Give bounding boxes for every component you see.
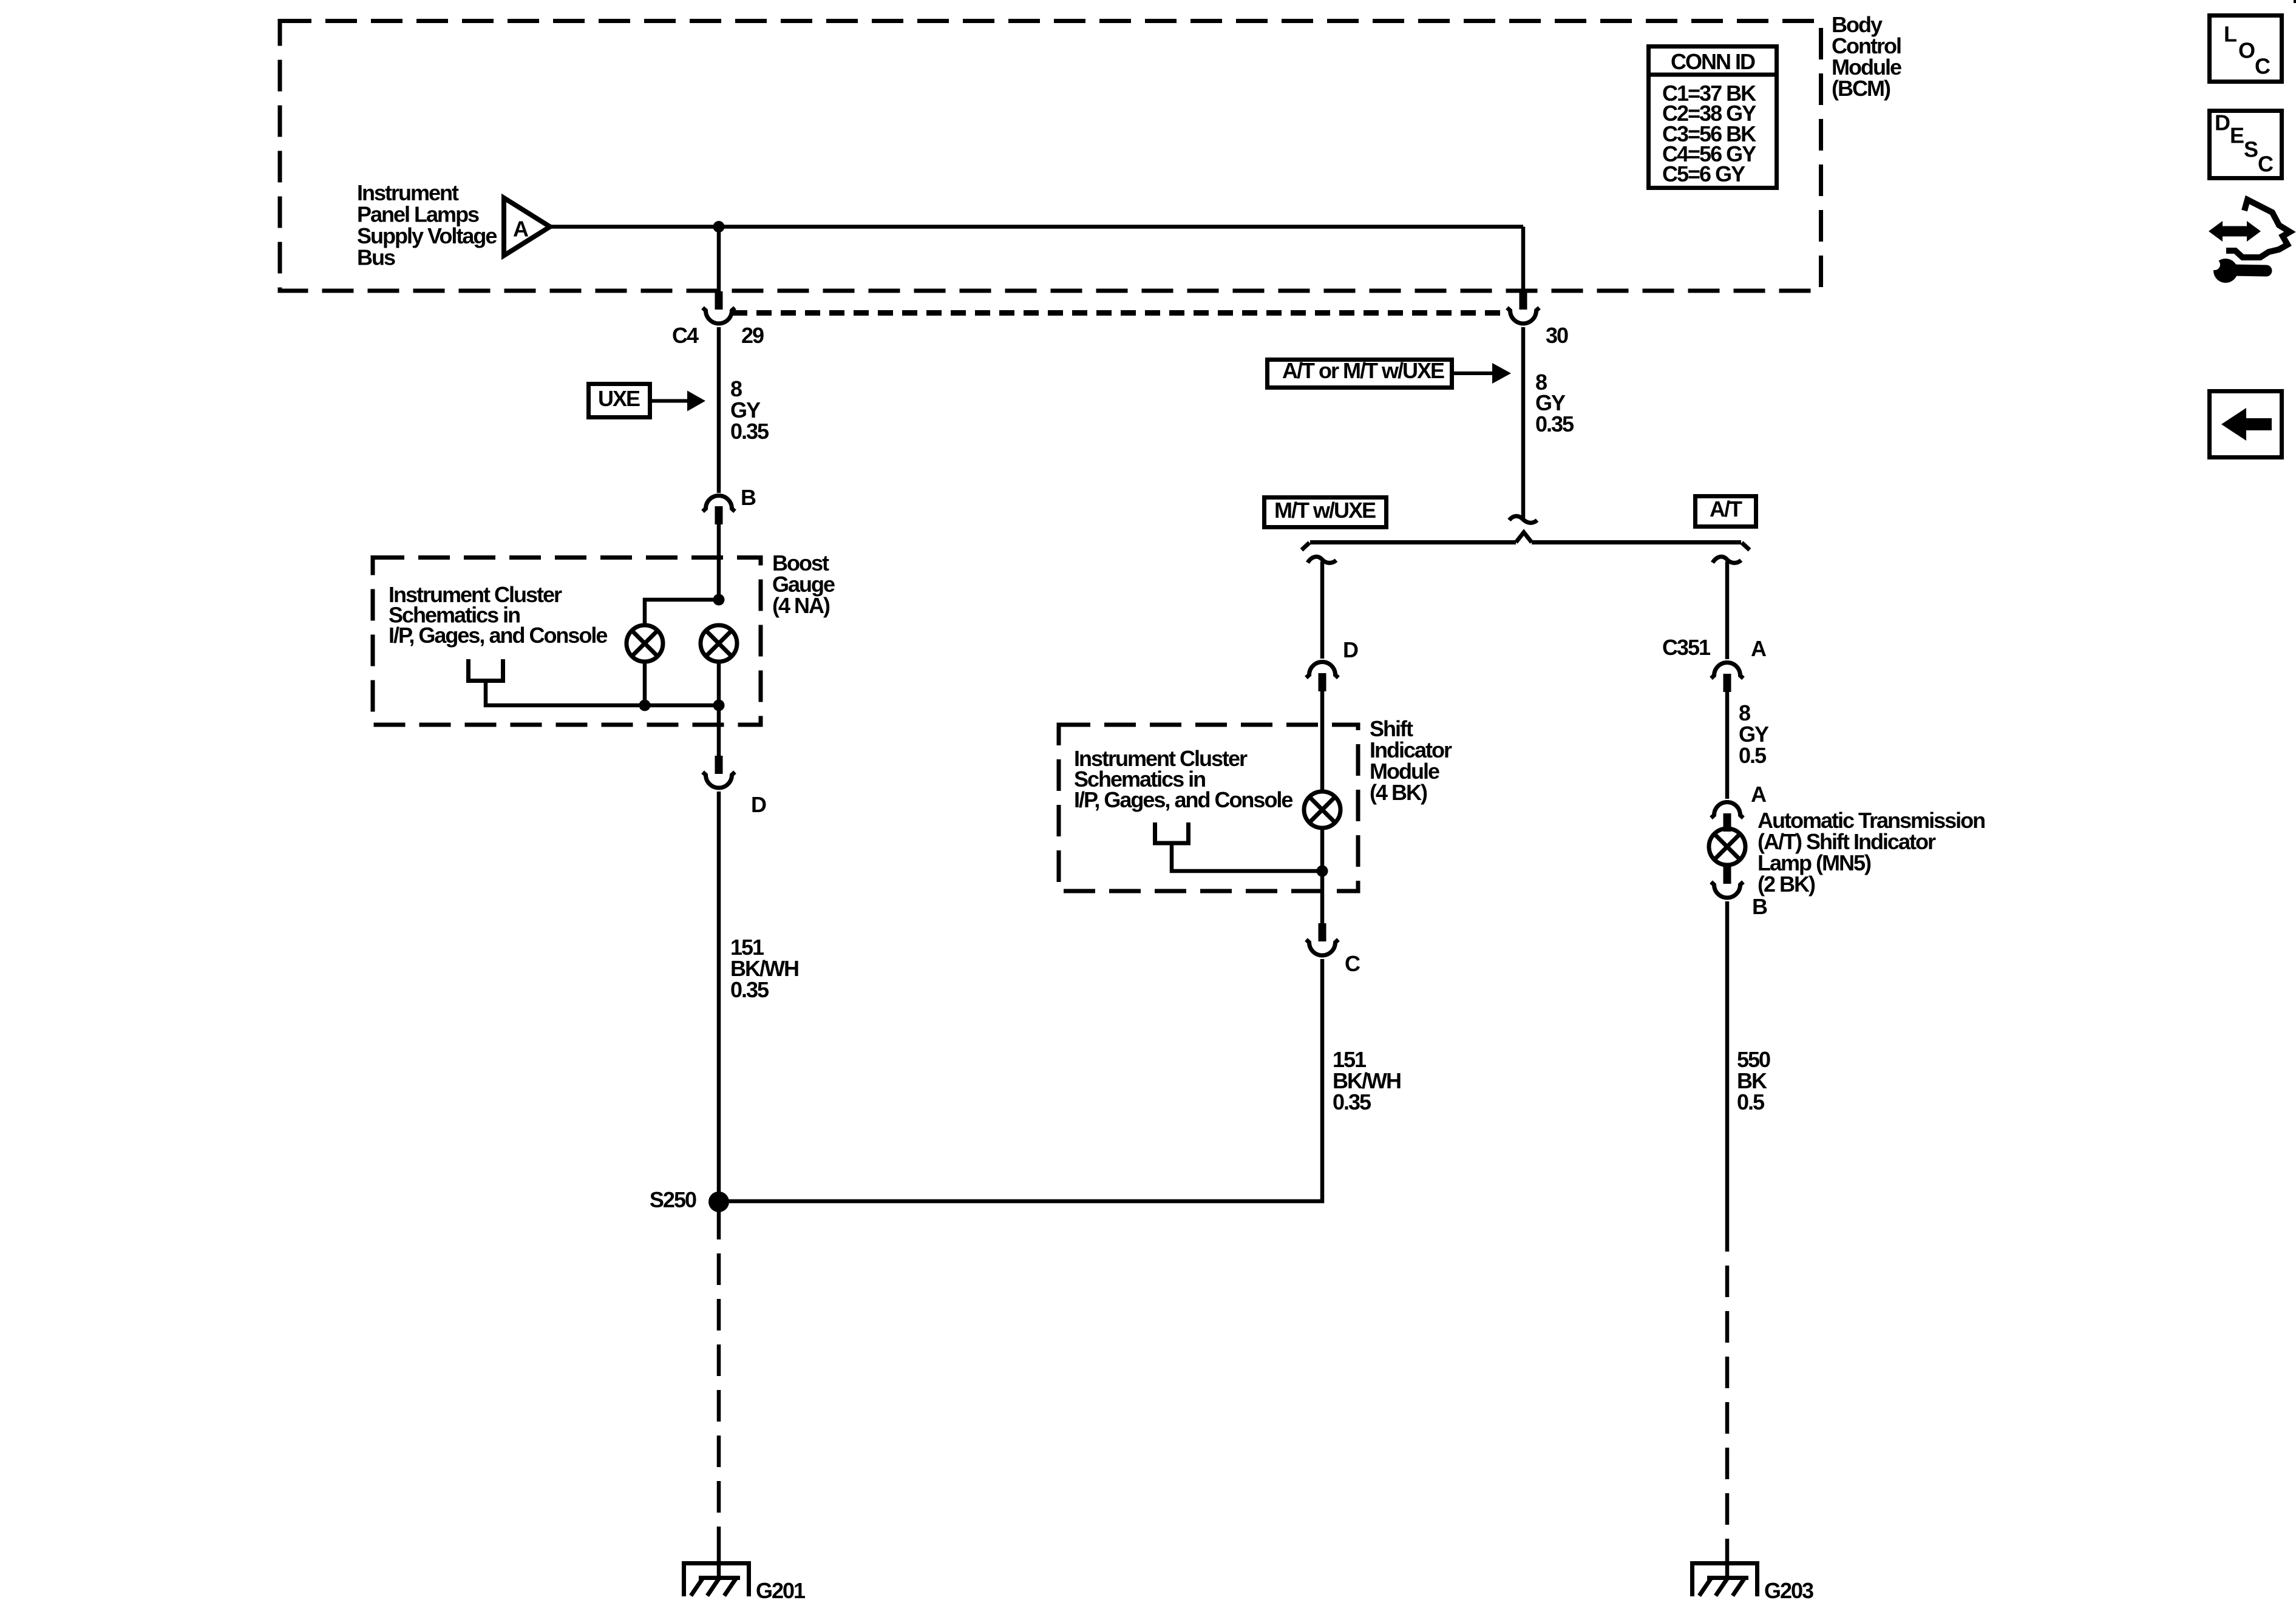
- Automatic Transmission lamp label: [1758, 808, 1985, 897]
- wire module lamp to C: [1320, 828, 1325, 923]
- lamp connector A pin: [1724, 813, 1731, 832]
- bus junction dot: [713, 221, 725, 232]
- connector 30 terminal arc: [1507, 308, 1540, 324]
- instrument cluster label (shift module): [1074, 746, 1292, 812]
- ground G201 symbol: [682, 1561, 751, 1596]
- instrument cluster (gauge) dashed box: [373, 558, 761, 725]
- svg-text:A: A: [513, 216, 529, 241]
- svg-text:C: C: [1345, 951, 1360, 976]
- dashed ground wire left: [717, 1208, 721, 1545]
- A/T option box: [1696, 497, 1756, 527]
- svg-text:30: 30: [1546, 323, 1568, 348]
- svg-text:I/P, Gages, and Console: I/P, Gages, and Console: [1074, 787, 1292, 812]
- svg-text:M/T w/UXE: M/T w/UXE: [1274, 498, 1376, 523]
- UXE option box: [589, 384, 650, 418]
- connector C351 terminal arc: [1711, 663, 1744, 679]
- svg-text:C: C: [2258, 151, 2274, 176]
- svg-text:B: B: [741, 485, 756, 510]
- LOC icon box: [2210, 16, 2282, 82]
- bus wire horizontal: [550, 225, 1523, 229]
- svg-text:0.35: 0.35: [730, 977, 769, 1002]
- wire B to gauge: [717, 524, 721, 603]
- A/T or M/T w/UXE option box: [1268, 358, 1452, 388]
- svg-text:S250: S250: [650, 1187, 696, 1212]
- svg-text:0.35: 0.35: [730, 419, 769, 444]
- A/T or M/T w/UXE arrow: [1454, 363, 1511, 384]
- svg-text:(4 NA): (4 NA): [772, 593, 830, 618]
- svg-text:D: D: [2215, 110, 2230, 135]
- UXE arrow: [652, 391, 705, 412]
- schematic navigation icon outline: [2226, 200, 2290, 257]
- gauge bracket stem: [486, 681, 719, 706]
- gauge right lamp: [701, 625, 737, 662]
- gauge left lamp: [627, 625, 663, 662]
- gauge top junction dot: [713, 594, 725, 606]
- module cluster bracket symbol: [1155, 822, 1189, 843]
- connector C4 terminal arc: [703, 308, 735, 324]
- svg-text:(2 BK): (2 BK): [1758, 872, 1815, 897]
- dashed ground wire right: [1725, 1220, 1730, 1545]
- wire D to S250: [717, 792, 721, 1201]
- connector C4 pin: [715, 291, 723, 310]
- svg-text:L: L: [2224, 21, 2237, 46]
- wire label 8 GY 0.35 (right): [1535, 370, 1574, 436]
- svg-text:(4 BK): (4 BK): [1370, 780, 1427, 805]
- splice S250 dot: [708, 1192, 729, 1212]
- wire bus to 30: [1521, 227, 1526, 293]
- wire D to module lamp: [1320, 691, 1325, 793]
- lamp connector B pin: [1724, 866, 1731, 884]
- svg-text:A/T or M/T w/UXE: A/T or M/T w/UXE: [1282, 358, 1444, 383]
- wire label 8 GY 0.5: [1739, 700, 1769, 768]
- connector C351 pin: [1724, 674, 1731, 692]
- svg-text:A: A: [1751, 782, 1767, 807]
- ground G203 symbol: [1690, 1561, 1759, 1596]
- back arrow icon box: [2210, 392, 2282, 458]
- svg-text:E: E: [2230, 123, 2244, 147]
- instrument cluster label (gauge): [389, 582, 607, 648]
- svg-text:G203: G203: [1764, 1578, 1813, 1603]
- option split bracket: [1302, 532, 1750, 550]
- gauge cluster bracket symbol: [469, 659, 503, 681]
- svg-text:0.5: 0.5: [1737, 1090, 1765, 1114]
- gauge branch wire to left lamp: [645, 600, 719, 625]
- connector D (left) pin: [715, 756, 723, 774]
- lamp connector A terminal arc: [1711, 802, 1744, 818]
- Boost Gauge label: [772, 551, 835, 618]
- ground wire stub left: [717, 1545, 721, 1579]
- svg-text:C5=6 GY: C5=6 GY: [1662, 161, 1745, 186]
- svg-text:O: O: [2238, 38, 2255, 63]
- svg-text:Bus: Bus: [357, 245, 395, 269]
- svg-text:(BCM): (BCM): [1832, 76, 1890, 101]
- CONN ID table: [1646, 47, 1779, 188]
- connector B terminal arc: [703, 496, 735, 512]
- connector B pin: [715, 506, 723, 524]
- wire C351 to lamp A: [1725, 692, 1730, 799]
- lamp connector B terminal arc: [1711, 882, 1744, 898]
- svg-text:0.35: 0.35: [1535, 412, 1574, 436]
- wire label 8 GY 0.35 (left): [730, 376, 769, 444]
- gauge bottom left dot: [639, 700, 651, 711]
- wire label 151 BK/WH 0.35 (module): [1333, 1047, 1401, 1114]
- svg-text:I/P, Gages, and Console: I/P, Gages, and Console: [389, 623, 607, 648]
- svg-text:CONN ID: CONN ID: [1671, 49, 1755, 74]
- connector C pin: [1319, 923, 1326, 941]
- svg-text:0.5: 0.5: [1739, 743, 1767, 768]
- connector C terminal arc: [1306, 940, 1339, 955]
- svg-text:D: D: [751, 792, 766, 817]
- svg-text:S: S: [2244, 137, 2258, 161]
- gauge bottom right dot: [713, 700, 725, 711]
- BCM dashed box: [280, 21, 1821, 291]
- wire 30 down: [1521, 327, 1526, 519]
- svg-text:G201: G201: [756, 1578, 806, 1603]
- A/T shift indicator lamp: [1709, 829, 1745, 865]
- wire end curl: [1509, 516, 1537, 523]
- connector D (left) terminal arc: [703, 772, 735, 788]
- M/T branch start curl: [1308, 557, 1336, 563]
- svg-text:C: C: [2255, 53, 2271, 78]
- svg-text:D: D: [1343, 637, 1358, 662]
- wire A/T branch down to C351: [1725, 561, 1730, 659]
- wire label 151 BK/WH 0.35 (left): [730, 935, 798, 1002]
- svg-text:C4: C4: [672, 323, 699, 348]
- connector D (module) pin: [1319, 673, 1326, 691]
- page corner mark: [2294, 0, 2296, 3]
- shift indicator module dashed box: [1059, 725, 1358, 891]
- svg-text:0.35: 0.35: [1333, 1090, 1371, 1114]
- svg-text:B: B: [1752, 894, 1767, 919]
- wire bus to C4: [717, 227, 721, 293]
- svg-text:A/T: A/T: [1710, 497, 1742, 521]
- module junction dot: [1317, 866, 1328, 877]
- A/T branch start curl: [1713, 557, 1741, 563]
- Shift Indicator Module label: [1370, 716, 1452, 805]
- bus driver triangle A: [504, 198, 550, 256]
- DESC icon box: [2210, 110, 2282, 178]
- M/T w/UXE option box: [1265, 498, 1387, 527]
- svg-text:A: A: [1751, 636, 1767, 661]
- svg-text:C351: C351: [1662, 635, 1711, 660]
- gauge right lamp lower wire: [717, 662, 721, 756]
- dotted harness line C4 to 30: [732, 310, 1510, 316]
- wire C4 to B: [717, 327, 721, 493]
- navigation icon wrench: [2206, 259, 2266, 283]
- wire C down to S250 line: [719, 959, 1322, 1201]
- Body Control Module (BCM) label: [1832, 12, 1901, 101]
- ground wire stub right: [1725, 1545, 1730, 1579]
- svg-text:UXE: UXE: [598, 386, 640, 411]
- wire lamp B down: [1725, 901, 1730, 1220]
- Instrument Panel Lamps Supply Voltage Bus label: [357, 180, 497, 270]
- connector 30 pin: [1520, 291, 1527, 310]
- wire label 550 BK 0.5: [1737, 1047, 1770, 1114]
- wire M/T branch down to D: [1320, 561, 1325, 659]
- connector D (module) terminal arc: [1306, 662, 1339, 678]
- module bracket stem: [1172, 843, 1322, 871]
- svg-text:29: 29: [741, 323, 764, 348]
- gauge left lamp lower wire: [643, 662, 647, 705]
- navigation icon double arrow: [2209, 221, 2261, 242]
- module lamp: [1304, 792, 1340, 828]
